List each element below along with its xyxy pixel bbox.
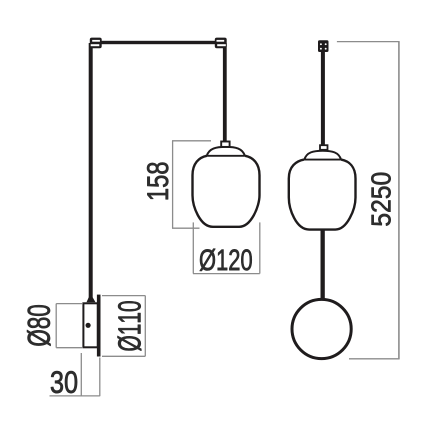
label 5250 [371,173,390,226]
dim 5250: top extension [337,41,400,43]
lamp shade dome (right drawing) [304,151,341,160]
label 158 [147,163,168,200]
dim 5250: vertical line [398,42,400,359]
dim Ø120: right extension [259,222,261,273]
dim Ø120: left extension [192,222,194,273]
node B: right arm bracket [215,38,227,49]
wall plate bar [97,295,101,357]
dim line 158: bottom extension [172,227,200,229]
wall mount body (side view) [83,303,97,347]
socket (left drawing) [221,142,229,147]
socket (right drawing) [320,145,328,150]
wire: lower stem rod (right drawing) [321,230,325,301]
glass ball (right drawing) [292,299,351,358]
dim line 158: vertical [172,141,174,228]
dim Ø110: bottom line [102,355,145,357]
label 30 [51,371,77,393]
dim Ø80: top line [56,303,82,305]
node A: left arm bracket [90,38,102,49]
dim 30: left extension [80,353,82,396]
lamp shade dome (left drawing) [207,147,245,156]
dim 30: bottom line [50,395,100,397]
label Ø110 [118,301,142,351]
wire: left drawing pendant cord [223,43,227,141]
wall mount stem flare [87,297,96,302]
label Ø120 [200,249,252,271]
wire: top horizontal arm (left drawing) [96,41,222,44]
lamp shade body (right drawing) [289,160,356,230]
dim Ø80: bottom line [56,347,82,349]
label Ø80 [27,305,50,346]
lamp shade collar line (right drawing) [303,159,342,161]
lamp shade collar line (left drawing) [205,155,246,157]
wall mount screw [86,323,91,328]
ceiling mount (right drawing) [318,40,329,52]
dim Ø80: vertical connector [55,304,57,348]
dim Ø120: bottom line [193,273,260,275]
dim line 158: top extension [172,140,211,142]
dim Ø110: vertical connector [144,296,146,357]
dim Ø110: top line [102,295,145,297]
lamp shade body (left drawing) [193,156,260,227]
dim 30: right extension [99,358,101,397]
dim 5250: bottom extension [349,358,400,360]
wire: pendant cord (right drawing) [321,52,325,146]
wire: left vertical rod down to wall mount [89,43,93,298]
